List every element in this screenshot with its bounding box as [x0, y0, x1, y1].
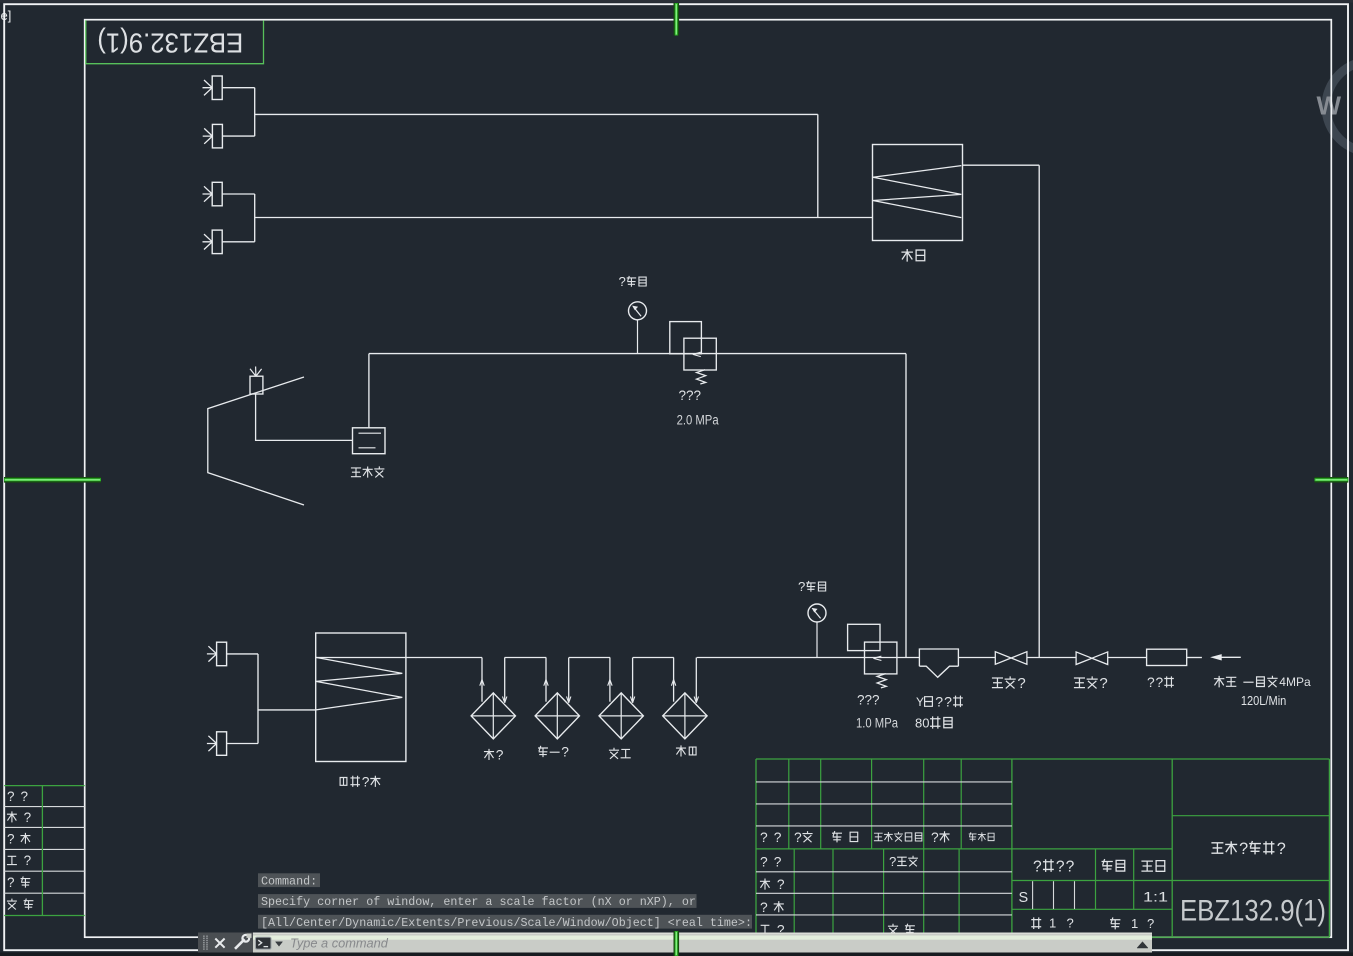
svg-text:?: ? — [1067, 916, 1074, 931]
svg-text:?: ? — [1239, 840, 1248, 858]
svg-text:???: ??? — [857, 693, 880, 708]
wire cooler drop lines — [481, 658, 483, 702]
label 球形? — [1075, 675, 1108, 692]
left margin signature table — [4, 785, 85, 787]
svg-text:?: ? — [774, 854, 782, 869]
label 校 对 — [7, 810, 31, 825]
wire gauge stem — [637, 320, 639, 354]
svg-text:?: ? — [760, 900, 768, 915]
label Y型??器 — [916, 694, 962, 710]
selected block frame EBZ132.9(1) — [86, 20, 264, 63]
cooler 油缸 — [663, 693, 707, 739]
command input bar — [198, 933, 1152, 953]
svg-text:?: ? — [774, 830, 782, 845]
wire regulated water line 2.0MPa — [369, 353, 906, 355]
wire cooler drop lines — [545, 658, 547, 702]
title block grid — [756, 758, 1329, 760]
wire nozzle to water seal — [256, 394, 353, 440]
label 压力表 (gauge 2) — [798, 579, 826, 594]
label 80网目 — [915, 715, 952, 730]
svg-text:?: ? — [7, 875, 15, 890]
svg-text:?: ? — [362, 774, 370, 789]
command history lines — [258, 873, 320, 887]
watermark ring W — [1326, 61, 1353, 152]
svg-text:?: ? — [7, 831, 15, 846]
spray nozzle N4 — [212, 230, 222, 254]
cutting machine heat exchanger 切割?机 — [316, 633, 406, 762]
label 压力表 (gauge 1) — [619, 274, 647, 289]
viewport grip right — [1315, 477, 1349, 483]
svg-text:?: ? — [1066, 858, 1075, 875]
svg-text:?: ? — [889, 854, 896, 869]
svg-text:?: ? — [935, 694, 943, 710]
cooler 星? — [471, 693, 515, 739]
svg-text:Command:: Command: — [261, 874, 317, 888]
wire line to oil tank — [255, 217, 873, 219]
svg-text:?: ? — [798, 579, 805, 594]
svg-text:Type a command: Type a command — [290, 935, 389, 950]
label 共1张 第1张 — [1032, 918, 1041, 928]
wire cooler drop lines — [673, 658, 675, 702]
wire main water line — [316, 657, 482, 659]
svg-text:80: 80 — [915, 715, 929, 730]
grip dots — [203, 936, 204, 937]
svg-text:[All/Center/Dynamic/Extents/Pr: [All/Center/Dynamic/Extents/Previous/Sca… — [261, 916, 752, 930]
wire seal riser — [368, 354, 370, 428]
svg-text:?: ? — [561, 745, 569, 760]
svg-text:?: ? — [1156, 675, 1164, 690]
label 批 准 — [7, 899, 32, 909]
svg-text:???: ??? — [679, 388, 702, 403]
cooler 行走 — [599, 693, 643, 739]
svg-text:Y: Y — [916, 695, 924, 709]
svg-text:?: ? — [7, 789, 15, 804]
wire nozzle pair B manifold — [222, 193, 255, 195]
svg-text:?: ? — [777, 877, 785, 892]
wire tank outlet — [963, 164, 1040, 166]
label 工 艺 — [7, 853, 31, 868]
wire cutter nozzle manifold — [227, 653, 258, 655]
label 标 准 — [7, 875, 30, 890]
svg-text:?: ? — [944, 694, 952, 710]
svg-text:EBZ132.9(1): EBZ132.9(1) — [1180, 895, 1326, 928]
svg-text:W: W — [1317, 91, 1342, 121]
label 水密封 — [352, 467, 384, 477]
pressure reducing valve 1.0MPa — [848, 624, 880, 650]
mirrored text EBZ132.9(1) — [97, 28, 243, 59]
close icon — [215, 939, 224, 948]
label 切割?机 — [340, 774, 380, 789]
svg-text:4MPa: 4MPa — [1279, 675, 1311, 689]
wire cooler drop lines — [609, 658, 611, 702]
ball valve V2 球形? — [1076, 652, 1108, 665]
scroll up button — [1137, 942, 1148, 948]
label 设 计 — [7, 789, 28, 804]
svg-text:?: ? — [1277, 840, 1286, 858]
viewport grip bottom — [673, 931, 679, 956]
svg-text:?: ? — [1056, 858, 1065, 875]
svg-text:?: ? — [760, 854, 768, 869]
prompt icon — [256, 937, 272, 949]
svg-text:?: ? — [794, 830, 802, 845]
svg-text:?: ? — [24, 853, 32, 868]
pressure reducing valve 2.0MPa — [670, 322, 702, 354]
pressure gauge PG1 — [629, 302, 647, 320]
svg-text:?: ? — [1017, 675, 1025, 692]
spray nozzle N2 — [212, 124, 222, 147]
svg-text:1: 1 — [1131, 916, 1138, 931]
svg-text:EBZ132.9(1): EBZ132.9(1) — [97, 28, 243, 59]
svg-text:?: ? — [21, 789, 29, 804]
svg-text:Specify corner of window, ente: Specify corner of window, enter a scale … — [261, 895, 696, 909]
wire tank outlet drop to main line — [1038, 165, 1040, 657]
svg-text:?: ? — [24, 810, 32, 825]
label 油箱 — [902, 250, 925, 261]
ball valve V1 球形? — [995, 652, 1027, 665]
viewport grip top — [673, 3, 679, 36]
label 球形? — [993, 675, 1026, 692]
Y-type strainer — [919, 649, 958, 677]
svg-text:?: ? — [1099, 675, 1107, 692]
svg-text:1.0 MPa: 1.0 MPa — [856, 716, 898, 731]
svg-text:?: ? — [496, 747, 504, 762]
cooler 第一? — [535, 693, 579, 739]
label 水系统原理图 — [1212, 840, 1286, 858]
label 来水 不低于4MPa — [1215, 675, 1311, 689]
spray nozzle N5 — [217, 642, 227, 666]
svg-text:?: ? — [760, 830, 768, 845]
svg-text:S: S — [1019, 890, 1029, 906]
label 阶段标记 重量 比例 — [1033, 858, 1075, 875]
dropdown caret — [276, 942, 283, 946]
svg-text:2.0 MPa: 2.0 MPa — [677, 412, 719, 427]
wire drop to return line — [817, 114, 819, 217]
label 审 核 — [7, 831, 30, 846]
title block row labels — [760, 854, 782, 869]
water seal 水密封 — [353, 428, 386, 454]
heat exchanger tank 油箱 — [873, 145, 963, 241]
wrench icon — [235, 939, 245, 949]
title block header labels — [760, 830, 782, 845]
svg-text:1:1: 1:1 — [1143, 888, 1168, 904]
svg-text:?: ? — [1033, 858, 1042, 875]
spray nozzle N1 — [212, 76, 222, 100]
viewport grip left — [4, 477, 101, 483]
svg-text:1: 1 — [1049, 916, 1056, 931]
spray nozzle N6 — [217, 732, 227, 756]
svg-text:?: ? — [619, 274, 626, 289]
wire nozzle pair A manifold — [222, 87, 255, 89]
filter ??器 — [1147, 649, 1187, 665]
wire regulator line drop — [905, 354, 907, 658]
boom spray nozzle — [250, 376, 263, 394]
svg-text:120L/Min: 120L/Min — [1241, 694, 1286, 708]
spray nozzle N3 — [212, 182, 222, 206]
wire top supply line — [255, 113, 818, 115]
label ??器 — [1147, 675, 1173, 690]
svg-text:?: ? — [1147, 916, 1154, 931]
svg-text:?: ? — [1147, 675, 1155, 690]
svg-text:?: ? — [931, 830, 939, 845]
cutting boom sketch — [208, 377, 304, 505]
pressure gauge PG2 — [808, 604, 826, 622]
inlet flow arrow — [1221, 656, 1241, 658]
svg-text:e]: e] — [1, 8, 12, 23]
wire gauge 2 stem — [816, 622, 818, 658]
